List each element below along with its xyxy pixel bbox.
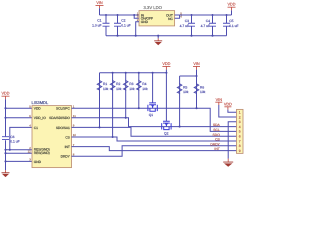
wire CS net	[72, 137, 237, 141]
regulator U2 3.3V LDO	[137, 5, 183, 26]
svg-text:6: 6	[239, 135, 241, 139]
resistor R3	[123, 73, 134, 118]
svg-text:R1: R1	[103, 82, 107, 86]
svg-text:4.7 uF: 4.7 uF	[201, 24, 210, 28]
wire RES(GND) pin 2 stub	[6, 149, 33, 151]
svg-text:VDD: VDD	[34, 107, 41, 111]
capacitor C4	[201, 15, 216, 36]
svg-text:INT: INT	[214, 147, 219, 151]
svg-text:VDD: VDD	[1, 92, 9, 96]
resistor R5	[177, 76, 188, 127]
svg-text:Q2: Q2	[164, 132, 169, 136]
svg-text:4.7 uF: 4.7 uF	[180, 24, 189, 28]
wire ground rail (top section)	[106, 35, 227, 37]
node SCL junctions	[138, 107, 140, 109]
svg-text:10k: 10k	[183, 90, 189, 94]
wire DRDY net	[72, 146, 237, 156]
wire VDD pin stub	[6, 107, 33, 109]
svg-text:VDD: VDD	[162, 62, 170, 66]
wire input rail	[100, 14, 135, 16]
svg-text:DRDY: DRDY	[61, 155, 71, 159]
resistor R1	[97, 73, 108, 128]
svg-text:C5: C5	[229, 19, 233, 23]
svg-text:C3: C3	[185, 19, 189, 23]
wire connector pin 3 to ground	[228, 122, 236, 159]
wire pull-up rail	[100, 72, 167, 74]
svg-text:7: 7	[239, 139, 241, 143]
wire LDO OUT/NC join	[175, 15, 180, 18]
wire GND pin 3 stub	[6, 160, 33, 162]
supply VDD (above connector)	[224, 102, 232, 109]
svg-text:0.1 uF: 0.1 uF	[10, 140, 19, 144]
ground (top section)	[154, 36, 162, 46]
svg-text:C1: C1	[97, 19, 101, 23]
ground (below connector)	[223, 159, 233, 167]
wire SDA net	[72, 118, 237, 127]
wire VDD rail down left side	[5, 99, 7, 136]
wire INT net	[72, 147, 237, 151]
wire RES(GND) pin 12 stub	[6, 152, 33, 154]
wire SDO net	[72, 127, 237, 136]
svg-text:1.0 uF: 1.0 uF	[92, 23, 101, 27]
svg-text:0.1 uF: 0.1 uF	[229, 24, 238, 28]
transistor Q2	[162, 73, 171, 136]
svg-text:C6: C6	[10, 135, 14, 139]
svg-text:R3: R3	[129, 82, 133, 86]
wire C6 to ground run	[5, 140, 7, 170]
svg-text:GND: GND	[34, 160, 42, 164]
svg-text:INT: INT	[65, 145, 70, 149]
svg-text:10k: 10k	[129, 87, 135, 91]
svg-text:C1: C1	[34, 126, 38, 130]
svg-text:SDO/SA1: SDO/SA1	[56, 126, 70, 130]
svg-text:8: 8	[239, 144, 241, 148]
svg-text:SCL/SPC: SCL/SPC	[56, 107, 70, 111]
svg-text:9: 9	[239, 149, 241, 153]
wire right pull-up rail	[180, 75, 197, 77]
supply VIN (top left)	[96, 1, 104, 8]
svg-text:2: 2	[239, 115, 241, 119]
node CS junction	[112, 136, 114, 138]
supply VDD (above pull-up rail)	[162, 62, 170, 70]
capacitor C2	[114, 15, 131, 36]
svg-text:10k: 10k	[116, 87, 122, 91]
node SDA junctions	[125, 117, 127, 119]
svg-text:VDD_IO: VDD_IO	[34, 116, 46, 120]
capacitor C6	[2, 135, 20, 144]
svg-text:VIN: VIN	[96, 1, 103, 5]
wire VDD to pull-up rail	[165, 70, 167, 73]
svg-text:C2: C2	[121, 19, 125, 23]
svg-text:R2: R2	[116, 82, 120, 86]
svg-text:C4: C4	[206, 19, 210, 23]
capacitor C1	[92, 15, 109, 36]
svg-text:3: 3	[239, 120, 241, 124]
svg-text:VIN: VIN	[193, 62, 200, 66]
svg-text:SDA: SDA	[213, 123, 221, 127]
svg-text:VIN: VIN	[216, 98, 223, 102]
svg-text:4: 4	[239, 125, 241, 129]
svg-text:SCL: SCL	[213, 128, 220, 132]
supply VIN (above right pull-up rail)	[193, 62, 200, 70]
svg-text:1: 1	[239, 111, 241, 115]
node ground rail junctions	[116, 35, 118, 37]
capacitor C3	[180, 15, 195, 36]
node C1 net to RES stub	[9, 149, 11, 151]
svg-text:5: 5	[239, 130, 241, 134]
svg-text:GND: GND	[141, 20, 149, 24]
wire output rail to VDD supply	[231, 10, 233, 15]
svg-text:VDD: VDD	[224, 102, 232, 106]
supply VIN (above connector)	[215, 98, 222, 105]
wire LDO GND pin to ground rail	[136, 22, 139, 36]
resistor R4	[137, 73, 148, 108]
svg-text:NC: NC	[168, 17, 173, 21]
wire VIN to input rail	[99, 8, 101, 15]
node right rail junction	[195, 75, 197, 77]
svg-text:LIS3MDL: LIS3MDL	[32, 100, 49, 105]
connector J1	[237, 109, 244, 153]
svg-text:10k: 10k	[103, 87, 109, 91]
wire VDD_IO pin stub	[6, 117, 33, 119]
supply VDD (left of chip)	[1, 92, 9, 100]
svg-text:12: 12	[28, 149, 32, 153]
wire output rail	[180, 14, 232, 16]
svg-text:VDD: VDD	[227, 3, 235, 7]
resistor R2	[110, 73, 121, 137]
ground (left of chip)	[2, 170, 10, 177]
svg-text:Q1: Q1	[149, 113, 154, 117]
node ground run junctions	[4, 149, 6, 151]
wire VIN to connector pin 2	[219, 105, 237, 117]
capacitor C5	[223, 15, 239, 36]
svg-text:RES(GND): RES(GND)	[34, 151, 50, 155]
svg-text:R5: R5	[183, 85, 187, 89]
transistor Q1	[148, 73, 157, 117]
svg-text:R4: R4	[142, 82, 146, 86]
node SDO junction	[98, 126, 100, 128]
svg-text:R6: R6	[200, 85, 204, 89]
wire SCL net	[72, 108, 237, 131]
svg-text:DRDY: DRDY	[210, 142, 220, 146]
svg-text:0.1 uF: 0.1 uF	[121, 23, 130, 27]
svg-text:SDO: SDO	[213, 133, 221, 137]
node pull-up rail junctions	[112, 72, 114, 74]
node input rail junctions	[105, 14, 107, 16]
svg-text:3.3V LDO: 3.3V LDO	[144, 5, 163, 10]
svg-text:SDA/SDI/SDO: SDA/SDI/SDO	[49, 116, 70, 120]
wire to ON/OFF pin	[134, 15, 139, 18]
resistor R6	[194, 76, 205, 108]
node VDD stub junctions	[4, 107, 6, 109]
svg-text:10k: 10k	[142, 87, 148, 91]
wire VIN to right pull-up rail	[196, 70, 198, 76]
svg-text:CS: CS	[215, 138, 220, 142]
svg-text:10k: 10k	[200, 90, 206, 94]
wire C1 pin net	[10, 127, 32, 149]
node output rail junctions	[190, 14, 192, 16]
supply VDD (top right)	[227, 3, 235, 11]
IC U1 LIS3MDL	[28, 100, 77, 167]
wire VDD to connector pin 1	[228, 110, 237, 113]
